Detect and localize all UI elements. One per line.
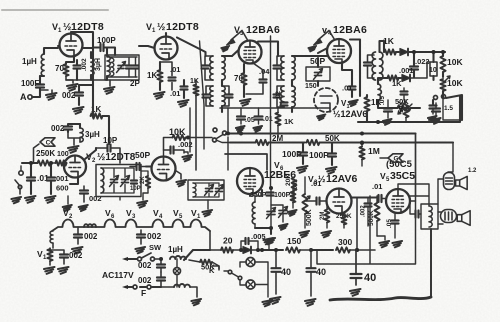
potentiometer 500K vol: [299, 177, 313, 237]
svg-text:1K: 1K: [284, 117, 294, 126]
tube V4: [327, 39, 351, 63]
resistor 1M: [359, 141, 364, 166]
svg-text:G: G: [393, 156, 398, 163]
label .001 ph: [56, 174, 69, 183]
label 50P b: [135, 150, 150, 160]
svg-text:002: 002: [69, 251, 83, 260]
wire det2 left: [378, 78, 385, 84]
resistor 10K a: [440, 52, 445, 77]
capacitor .01 av: [305, 198, 327, 205]
transformer IFT2 primary: [281, 56, 295, 80]
varcap tuning 1: [267, 186, 276, 228]
inductor osc coil: [249, 194, 262, 228]
terminal phono: [19, 166, 23, 175]
resistor 2K: [146, 176, 150, 188]
variable capacitor tank: [117, 62, 126, 73]
wire av6 wires: [351, 196, 376, 198]
label 1K d2: [392, 79, 402, 88]
wire top node: [71, 32, 93, 48]
svg-text:1M: 1M: [368, 146, 380, 156]
wire avc bus: [226, 132, 416, 136]
svg-text:002: 002: [147, 231, 161, 241]
flag G: [380, 154, 403, 163]
tank box: [105, 55, 139, 80]
tube V2 12AV6 diode: [314, 88, 338, 120]
label 10K b: [447, 78, 463, 88]
wire filament string: [52, 220, 210, 231]
svg-text:100P: 100P: [309, 150, 329, 160]
label 1M: [368, 146, 380, 156]
svg-text:12BA6: 12BA6: [246, 24, 280, 36]
label .002 r: [293, 179, 299, 191]
label 350P: [250, 192, 267, 199]
ground antenna: [46, 93, 57, 100]
svg-text:½12DT8: ½12DT8: [97, 152, 136, 163]
svg-text:AC117V: AC117V: [102, 270, 134, 280]
inductor 3µH osc: [91, 52, 102, 80]
varcap osc box 2: [215, 185, 224, 196]
svg-text:.01: .01: [311, 179, 321, 188]
label V4 12BA6: [322, 24, 367, 37]
svg-text:1K: 1K: [392, 79, 402, 88]
label 1µH f: [168, 245, 183, 254]
label V1 therm: [37, 249, 47, 261]
wire jack right: [255, 262, 268, 297]
label 20K: [285, 174, 292, 186]
svg-text:002: 002: [62, 91, 76, 100]
label 100P: [97, 36, 116, 45]
terminal fuse b: [147, 285, 151, 289]
svg-text:4: 4: [159, 214, 163, 220]
inductor L1 1µH: [40, 48, 58, 76]
label V2 fil: [63, 208, 73, 220]
inductor fil left: [50, 231, 53, 248]
capacitor .01 be6: [253, 108, 272, 132]
label .002 agc: [62, 91, 76, 100]
svg-text:10K: 10K: [447, 57, 463, 67]
label 250K av: [336, 213, 352, 220]
ground b1: [263, 238, 273, 250]
ground 500K o: [377, 236, 389, 247]
wire pot area: [378, 100, 420, 108]
wire x357 down: [355, 198, 359, 252]
svg-text:002: 002: [51, 124, 65, 133]
label 300: [338, 237, 352, 247]
capacitor .01 V3: [246, 63, 267, 94]
label V6: [274, 160, 284, 172]
label .01 av: [311, 179, 321, 188]
label 100P b: [309, 150, 329, 160]
transformer osc box: [188, 180, 224, 200]
capacitor tank 2: [126, 58, 132, 77]
label .01 b: [170, 89, 180, 98]
inductor pad coil: [107, 48, 110, 80]
svg-text:.05: .05: [386, 219, 393, 228]
capacitor .002 ac1: [138, 257, 165, 272]
capacitor .002 ac2: [138, 272, 165, 287]
capacitor tank 3: [133, 58, 139, 77]
resistor 50K bottom: [189, 260, 219, 269]
label 150: [287, 236, 301, 246]
terminal A: [20, 92, 32, 102]
svg-text:.01: .01: [342, 84, 352, 93]
ground 40c: [350, 289, 361, 296]
inductor 1µH f: [170, 256, 186, 259]
capacitor .002 b: [51, 124, 80, 133]
svg-text:1: 1: [43, 255, 47, 261]
capacitor 50P b: [130, 163, 146, 170]
svg-text:12BA6: 12BA6: [333, 24, 367, 36]
voice coil 1: [444, 173, 455, 190]
pilot lamp: [174, 259, 181, 287]
capacitor .05 mid: [379, 96, 392, 125]
wire ground stub: [40, 90, 52, 93]
capacitor .022: [410, 52, 418, 77]
potentiometer 50K det: [398, 105, 411, 114]
ground V3 cath: [240, 99, 251, 106]
resistor 1K V1b: [157, 62, 162, 90]
ground .002 mid: [182, 152, 192, 161]
svg-text:500K: 500K: [368, 210, 375, 226]
svg-text:.05: .05: [379, 96, 386, 105]
wire ift-b links: [292, 56, 300, 112]
label V3 fil: [126, 208, 136, 220]
label .001: [399, 66, 414, 75]
ground 1K V1b: [154, 92, 165, 99]
capacitor .002 c: [178, 80, 189, 107]
capacitor .05 be6: [236, 108, 255, 132]
wire bus corner: [415, 134, 417, 197]
label AC117V: [102, 270, 134, 280]
switch jack: [212, 266, 242, 280]
ground 3µH b: [68, 132, 80, 153]
tube V3av: [327, 189, 352, 214]
label F: [141, 288, 146, 298]
wire V1b top: [165, 33, 167, 37]
svg-text:250K: 250K: [36, 149, 55, 158]
capacitor 100P a: [297, 143, 308, 173]
svg-text:100P: 100P: [282, 149, 302, 159]
transformer output: [421, 204, 438, 229]
capacitor det out: [401, 88, 408, 100]
wire be6 down: [250, 190, 262, 196]
capacitor .002 o: [361, 198, 372, 226]
label V3 12BA6: [234, 24, 280, 37]
svg-text:C: C: [46, 140, 51, 147]
label V2 1/2 12AV6: [333, 99, 367, 119]
label 10P: [103, 136, 118, 145]
svg-text:1.5: 1.5: [444, 105, 453, 112]
voice coil 2: [441, 210, 457, 223]
tube V1a: [60, 34, 83, 57]
capacitor IFT2 sec: [274, 86, 285, 107]
capacitor out: [410, 201, 421, 218]
resistor 2M: [230, 140, 305, 145]
svg-text:150: 150: [287, 236, 301, 246]
label V1 fil: [191, 208, 201, 220]
inductor osc box coil: [193, 183, 196, 197]
capacitor IFT1 pri: [202, 56, 214, 80]
resistor 300: [336, 247, 375, 252]
inductor tank2 coil: [101, 168, 104, 193]
inductor ac choke: [161, 284, 197, 297]
diode D3: [243, 247, 262, 254]
wire V4 plate to IFT3: [350, 40, 360, 97]
transformer IFT1 secondary: [210, 86, 225, 106]
tank 2 caps: [110, 176, 138, 187]
svg-text:1µH: 1µH: [22, 57, 37, 66]
label 2M: [272, 134, 283, 143]
capacitor 40 c: [351, 250, 377, 285]
ground ac: [191, 299, 201, 305]
varcap 50P box: [306, 67, 330, 81]
svg-text:5: 5: [179, 214, 183, 220]
ground cathode 70: [66, 76, 78, 91]
wire top rail y80: [66, 79, 107, 81]
wire ift3 links: [380, 41, 385, 52]
wire tuning node: [255, 226, 275, 244]
label 100P a: [282, 149, 302, 159]
svg-text:600: 600: [56, 184, 69, 193]
svg-text:002: 002: [84, 232, 98, 241]
resistor 70: [63, 64, 68, 76]
capacitor .01 a: [160, 62, 176, 90]
wire ac line2: [122, 285, 161, 289]
wire jack wiring: [240, 262, 245, 285]
ground osc box: [202, 200, 212, 216]
inductor 3µH b: [80, 124, 100, 142]
tube V5: [386, 189, 410, 213]
ground tank2: [137, 193, 148, 208]
label .01 coupling: [372, 182, 382, 191]
svg-text:.002: .002: [361, 205, 367, 217]
tube V1b: [155, 37, 178, 60]
tank 2 box: [96, 165, 141, 197]
resistor 10K mid: [164, 135, 213, 150]
diode D2: [402, 62, 430, 81]
wire x443 jack: [443, 99, 462, 120]
label .005 b: [251, 232, 266, 241]
label 50C5: [386, 159, 413, 170]
svg-text:001: 001: [56, 174, 69, 183]
label 10K mid: [169, 127, 186, 137]
potentiometer 500K o: [368, 196, 380, 236]
svg-text:2M: 2M: [320, 212, 326, 220]
label 1K be6: [284, 117, 294, 126]
switch band: [213, 128, 241, 143]
svg-text:2P: 2P: [130, 79, 140, 88]
jack J1: [246, 258, 255, 267]
ground .002: [73, 107, 84, 114]
wire L1 top to grid: [58, 45, 60, 47]
label V2 12DT8: [86, 152, 136, 164]
capacitor mid2: [432, 103, 441, 124]
label .01 ph: [37, 173, 49, 183]
wire fil right end: [209, 231, 211, 250]
ground 40a: [270, 297, 281, 304]
resistor 1K agc: [91, 113, 103, 118]
svg-text:½12AV6: ½12AV6: [333, 109, 367, 119]
label 12BE6: [264, 169, 296, 181]
label 250K: [36, 149, 69, 158]
transformer IFT3 primary: [372, 52, 383, 80]
wire cathode: [66, 57, 74, 65]
label 50K bottom: [201, 263, 215, 272]
capacitor .01 V4: [342, 78, 358, 106]
resistor 250K av: [342, 214, 347, 229]
svg-text:10K: 10K: [447, 78, 463, 88]
label 70 V3: [234, 74, 243, 83]
capacitor .002 cathode: [74, 58, 89, 80]
capacitor 40 a: [272, 248, 292, 294]
label 1K V1b: [147, 71, 157, 80]
label V5 35C5: [380, 170, 415, 183]
wire V4 cath: [342, 63, 352, 78]
ground 40b: [305, 299, 316, 306]
wire 100P to tank: [93, 48, 115, 56]
inductor tank coil: [111, 58, 114, 76]
resistor 20: [210, 247, 241, 252]
wire osc box: [193, 183, 219, 197]
svg-text:40: 40: [316, 267, 326, 277]
resistor 1K det: [384, 41, 399, 55]
capacitor .002 f2: [50, 250, 83, 274]
capacitor .005 b: [239, 238, 260, 252]
ground extra mid: [63, 196, 72, 211]
svg-text:10: 10: [429, 67, 437, 74]
capacitor .002 cath2: [80, 186, 102, 203]
svg-text:3µH: 3µH: [95, 58, 102, 71]
capacitor jack: [428, 106, 437, 122]
label 20: [223, 236, 233, 246]
wire V3 grid: [232, 50, 239, 56]
resistor 10 box: [429, 52, 437, 80]
svg-text:3µH: 3µH: [85, 130, 100, 139]
label .01 a: [170, 65, 180, 74]
svg-text:6: 6: [111, 214, 115, 220]
label 70: [55, 64, 64, 73]
wire V4 grid: [300, 48, 328, 56]
ground V2b cathode: [176, 171, 187, 187]
ground .002 cath2: [79, 205, 88, 211]
tube V6: [237, 168, 263, 194]
label V4 fil: [153, 208, 163, 220]
svg-text:50P: 50P: [135, 150, 150, 160]
jack J2: [246, 280, 255, 289]
speaker SP1: [456, 168, 477, 190]
svg-text:1K: 1K: [190, 78, 199, 85]
inductor fil choke: [84, 224, 96, 227]
label 50K avc: [325, 134, 340, 143]
svg-text:.01: .01: [263, 116, 273, 123]
svg-text:.02: .02: [275, 91, 282, 100]
label 150 V4: [305, 83, 317, 90]
capacitor IFT2 pri: [274, 56, 285, 80]
label V1 1/2 12DT8: [52, 21, 104, 34]
wire x431 down: [330, 229, 431, 300]
transformer IFT3 secondary: [378, 80, 381, 104]
wire agc row: [93, 47, 109, 144]
switch SW: [138, 253, 163, 261]
svg-text:A: A: [20, 92, 27, 102]
ground sw cap: [135, 247, 145, 253]
svg-text:100: 100: [57, 151, 69, 158]
svg-text:1: 1: [197, 214, 201, 220]
capacitor 100F: [36, 85, 44, 88]
resistor 1K be6: [275, 108, 280, 136]
wire ift-a links: [222, 56, 232, 112]
wire be6 top bus: [220, 107, 330, 109]
capacitor 350P: [267, 193, 274, 196]
svg-text:3: 3: [132, 214, 136, 220]
wire tank2: [101, 168, 148, 200]
ground av cath: [321, 231, 331, 237]
resistor 70 V3: [241, 64, 246, 97]
wire speaker links: [438, 143, 453, 225]
wire V3 plate to IFT2: [258, 42, 278, 57]
wire loop right: [317, 196, 416, 264]
capacitor .002 agc: [75, 85, 93, 105]
wire det node: [412, 50, 445, 54]
svg-text:1.2: 1.2: [468, 168, 477, 174]
diode D1: [400, 49, 445, 56]
label 100P c: [274, 192, 291, 199]
resistor 100: [51, 160, 67, 165]
svg-text:K: K: [209, 266, 215, 275]
label 1K c: [190, 78, 199, 85]
label V3 1/2 12AV6: [308, 173, 357, 186]
resistor osc grid: [288, 186, 297, 216]
switch phono: [11, 180, 21, 203]
svg-text:F: F: [141, 288, 146, 298]
label V1 1/2 12DT8 b: [146, 21, 199, 34]
svg-text:002: 002: [138, 261, 152, 270]
tube V2b: [152, 157, 176, 181]
resistor thermistor: [44, 248, 55, 274]
capacitor IFT3 pri: [364, 55, 374, 78]
label K: [209, 266, 215, 275]
label 2P: [130, 79, 140, 88]
wire mid verticals: [190, 36, 271, 187]
svg-text:10P: 10P: [130, 186, 141, 192]
svg-text:SW: SW: [149, 243, 162, 252]
svg-text:.05: .05: [245, 117, 255, 124]
resistor det2: [385, 75, 401, 80]
capacitor IFT1 sec: [203, 86, 214, 106]
svg-text:2: 2: [69, 214, 73, 220]
capacitor 40 b: [307, 250, 327, 296]
tube V2: [64, 156, 86, 178]
speaker SP2: [457, 211, 470, 226]
ground .05 o: [392, 241, 402, 247]
capacitor .01 ph: [25, 161, 36, 203]
wire grid top 12BE6: [225, 154, 267, 170]
wire v2 plate: [85, 148, 96, 159]
resistor 1K mid: [364, 95, 369, 122]
capacitor .002 mid: [164, 140, 193, 157]
wire right box: [433, 95, 462, 120]
svg-text:1µH: 1µH: [168, 245, 183, 254]
label 10K a: [447, 57, 463, 67]
wire b node: [260, 248, 283, 252]
wire b node2: [309, 248, 333, 252]
svg-text:20: 20: [223, 236, 233, 246]
ground jacks: [262, 300, 272, 306]
resistor 50K avc: [307, 140, 454, 145]
wire v2b grid: [146, 165, 152, 167]
wire choke out: [184, 250, 210, 260]
svg-text:.01: .01: [170, 89, 180, 98]
